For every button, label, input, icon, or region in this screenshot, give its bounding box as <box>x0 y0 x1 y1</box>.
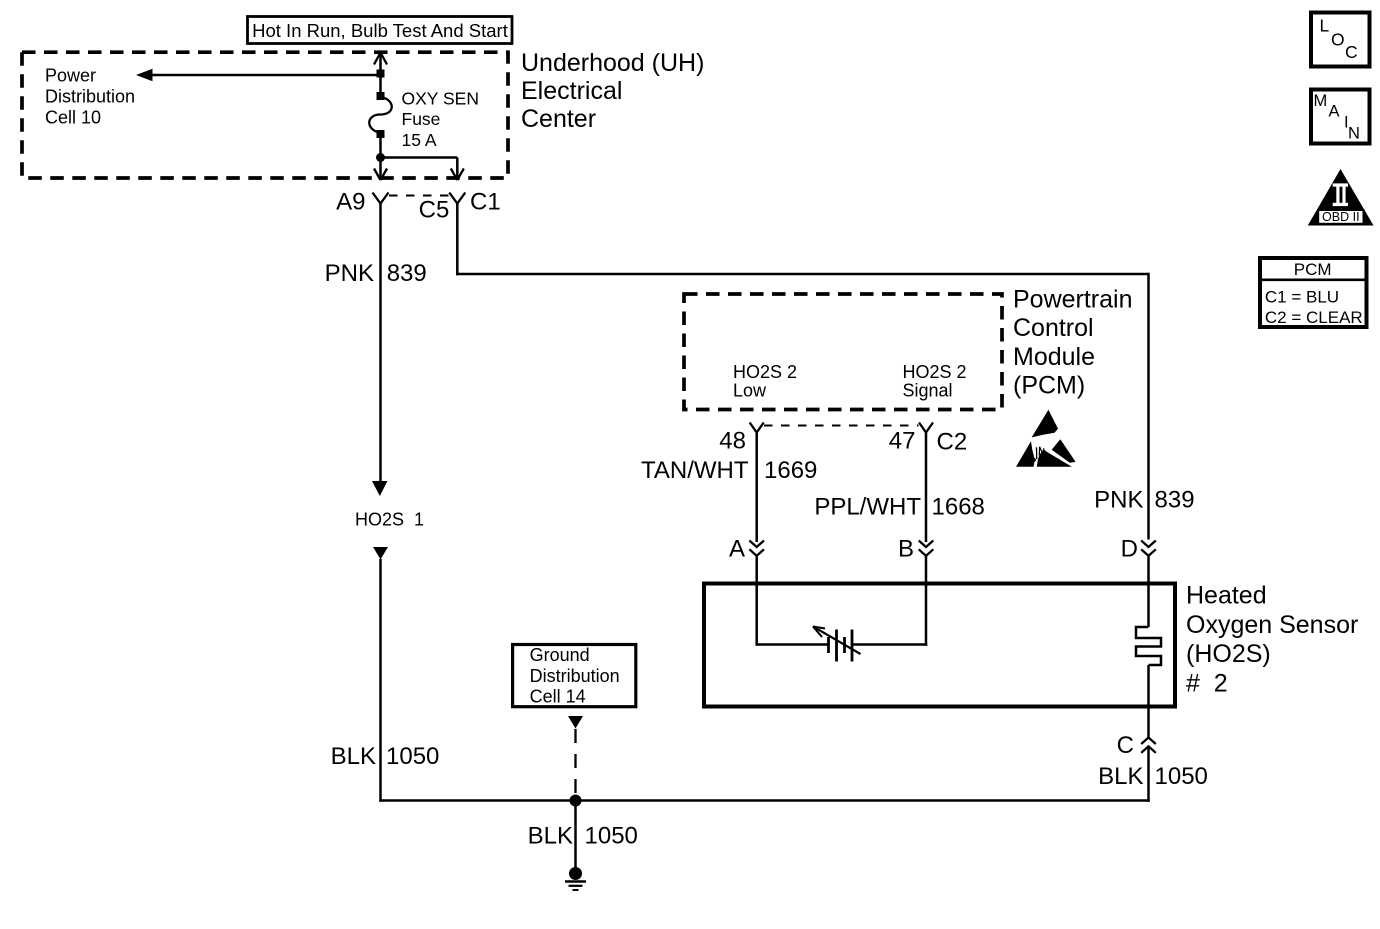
svg-text:C5: C5 <box>419 196 450 223</box>
svg-text:BLK: BLK <box>528 823 573 850</box>
wire: ground drop <box>574 801 577 869</box>
label: Heated Oxygen Sensor (HO2S) # 2 <box>1186 582 1358 698</box>
wire: heater to C connector <box>1147 665 1150 737</box>
svg-text:TAN/WHT: TAN/WHT <box>641 457 749 484</box>
label: BLK 1050 (bottom) <box>528 823 638 850</box>
svg-text:HO2S 2: HO2S 2 <box>903 362 967 382</box>
svg-text:Ground: Ground <box>530 645 590 665</box>
svg-text:Signal: Signal <box>903 381 953 401</box>
PCM dashed box <box>684 294 1002 410</box>
svg-text:BLK: BLK <box>331 743 376 770</box>
label C5 <box>419 196 450 223</box>
svg-text:1050: 1050 <box>585 823 638 850</box>
wire: arrow into A9 <box>374 169 387 181</box>
svg-text:Hot In Run, Bulb Test And Star: Hot In Run, Bulb Test And Start <box>252 20 508 41</box>
MAIN legend box <box>1311 90 1370 144</box>
svg-text:BLK: BLK <box>1098 763 1143 790</box>
page ref triangle (to Ground Distribution) <box>568 716 583 729</box>
svg-text:Power: Power <box>45 66 96 86</box>
svg-text:PPL/WHT: PPL/WHT <box>814 494 921 521</box>
svg-text:839: 839 <box>1155 487 1195 514</box>
LOC legend box <box>1311 13 1370 67</box>
label A <box>729 536 745 563</box>
label: Underhood (UH) Electrical Center <box>521 49 704 133</box>
svg-text:Cell 14: Cell 14 <box>530 687 586 707</box>
connector pin 47 (Y) <box>919 423 933 433</box>
connector C5 dashed link <box>389 195 450 197</box>
OBD II symbol <box>1308 169 1374 226</box>
svg-text:L: L <box>1320 16 1330 36</box>
wire: branch to C1 <box>381 158 464 181</box>
svg-text:Oxygen Sensor: Oxygen Sensor <box>1186 611 1358 639</box>
svg-text:Center: Center <box>521 105 596 133</box>
svg-text:N: N <box>1348 125 1360 143</box>
svg-text:(PCM): (PCM) <box>1013 372 1085 400</box>
connector B (inline, double chevron) <box>919 541 934 556</box>
svg-text:HO2S 1: HO2S 1 <box>355 510 424 530</box>
fuse: OXY SEN Fuse 15 A <box>369 92 392 138</box>
svg-text:1050: 1050 <box>386 743 439 770</box>
wire: A into sensor <box>757 556 829 646</box>
svg-text:1669: 1669 <box>764 457 817 484</box>
wire: bottom ground bus <box>379 799 1150 802</box>
svg-text:15 A: 15 A <box>402 130 437 150</box>
label B <box>898 536 914 563</box>
heater element <box>1136 627 1161 665</box>
label: Power Distribution Cell 10 <box>45 66 135 128</box>
label 48 <box>719 428 746 455</box>
wire: dashed ref to ground bus <box>574 729 576 795</box>
svg-text:B: B <box>898 536 914 563</box>
label C1 <box>470 188 501 215</box>
svg-text:O: O <box>1331 30 1345 50</box>
svg-text:C1: C1 <box>470 188 501 215</box>
sensor element (variable voltage cell) <box>813 627 861 662</box>
junction: ground bus tap <box>570 795 582 807</box>
ground symbol G103 <box>565 867 586 890</box>
label: TAN/WHT 1669 <box>641 457 817 484</box>
svg-text:C: C <box>1117 732 1134 759</box>
svg-text:1050: 1050 <box>1155 763 1208 790</box>
connector C (inline, double chevron up) <box>1141 738 1156 753</box>
svg-text:Low: Low <box>733 381 767 401</box>
svg-text:HO2S 2: HO2S 2 <box>733 362 797 382</box>
svg-text:# 2: # 2 <box>1186 669 1228 697</box>
svg-text:PNK: PNK <box>1094 487 1143 514</box>
svg-text:Underhood (UH): Underhood (UH) <box>521 49 704 77</box>
svg-text:C2 = CLEAR: C2 = CLEAR <box>1265 308 1363 327</box>
label A9 <box>336 188 365 215</box>
label: BLK 1050 (right) <box>1098 763 1208 790</box>
svg-text:839: 839 <box>387 260 427 287</box>
svg-text:Fuse: Fuse <box>402 109 441 129</box>
wire: PPL/WHT 1668 (pin 47 down) <box>925 433 928 543</box>
svg-text:D: D <box>1121 536 1138 563</box>
svg-text:OXY SEN: OXY SEN <box>402 89 480 109</box>
label: PNK 839 (left) <box>325 260 427 287</box>
svg-text:1668: 1668 <box>932 494 985 521</box>
svg-text:C2: C2 <box>937 429 968 456</box>
label: HO2S 2 Low <box>733 362 797 401</box>
svg-text:A: A <box>1329 103 1340 121</box>
connector D (inline, double chevron) <box>1141 541 1156 556</box>
svg-text:Heated: Heated <box>1186 582 1267 610</box>
page ref triangle (from HO2S 1) <box>373 547 388 560</box>
svg-text:48: 48 <box>719 428 746 455</box>
label: Powertrain Control Module (PCM) <box>1013 286 1133 400</box>
svg-text:Control: Control <box>1013 314 1094 342</box>
label: HO2S 1 <box>355 510 424 530</box>
ESD sensitive symbol <box>1016 410 1076 467</box>
wire: D into heater <box>1147 556 1150 627</box>
svg-text:C1 = BLU: C1 = BLU <box>1265 287 1339 306</box>
svg-text:Module: Module <box>1013 343 1095 371</box>
wire: fuse output stem <box>379 137 382 179</box>
svg-text:OBD II: OBD II <box>1322 210 1360 224</box>
junction dot at power feed tap <box>377 70 385 78</box>
svg-text:M: M <box>1314 92 1328 110</box>
svg-text:Electrical: Electrical <box>521 77 622 105</box>
label C <box>1117 732 1134 759</box>
connector pin C1 (Y) <box>449 193 465 204</box>
label box: Hot In Run, Bulb Test And Start <box>248 17 513 44</box>
connector A (inline, double chevron) <box>749 541 764 556</box>
wire: BLK 1050 left vertical <box>379 559 382 802</box>
label D <box>1121 536 1138 563</box>
svg-text:(HO2S): (HO2S) <box>1186 640 1271 668</box>
svg-text:Distribution: Distribution <box>530 666 620 686</box>
Underhood Electrical Center dashed box <box>22 52 508 178</box>
wire: PNK 839 left (A9 down to HO2S 1 arrow) <box>372 204 388 497</box>
label: PNK 839 (right) <box>1094 487 1194 514</box>
PCM connector legend table <box>1258 258 1369 327</box>
svg-text:47: 47 <box>889 428 916 455</box>
wire: C5/C1 vertical then across top <box>456 204 1148 540</box>
Ground Distribution box <box>513 645 636 707</box>
wire: B into sensor <box>852 556 927 646</box>
label C2 <box>937 429 968 456</box>
label 47 <box>889 428 916 455</box>
wire: BLK 1050 right vertical <box>1147 746 1150 801</box>
connector pin 48 (Y) <box>750 423 764 433</box>
connector C2 dashed link <box>764 425 919 427</box>
wire: TAN/WHT 1669 (pin 48 down) <box>755 433 758 543</box>
svg-text:C: C <box>1345 42 1358 62</box>
wire: arrow to Power Distribution <box>136 69 381 81</box>
wire: feed from Hot In Run bus (arrow up) <box>374 53 387 94</box>
label: PPL/WHT 1668 <box>814 494 985 521</box>
label: BLK 1050 (left) <box>331 743 440 770</box>
svg-text:Distribution: Distribution <box>45 87 135 107</box>
connector pin A9 (Y) <box>373 193 389 204</box>
label: HO2S 2 Signal <box>903 362 967 401</box>
junction dot below fuse <box>376 153 385 162</box>
svg-text:A: A <box>729 536 745 563</box>
svg-text:A9: A9 <box>336 188 365 215</box>
Heated Oxygen Sensor box <box>704 584 1175 707</box>
svg-text:Cell 10: Cell 10 <box>45 108 101 128</box>
label: OXY SEN Fuse 15 A <box>402 89 480 151</box>
svg-text:PCM: PCM <box>1294 260 1332 279</box>
svg-text:Powertrain: Powertrain <box>1013 286 1133 314</box>
svg-text:PNK: PNK <box>325 260 374 287</box>
